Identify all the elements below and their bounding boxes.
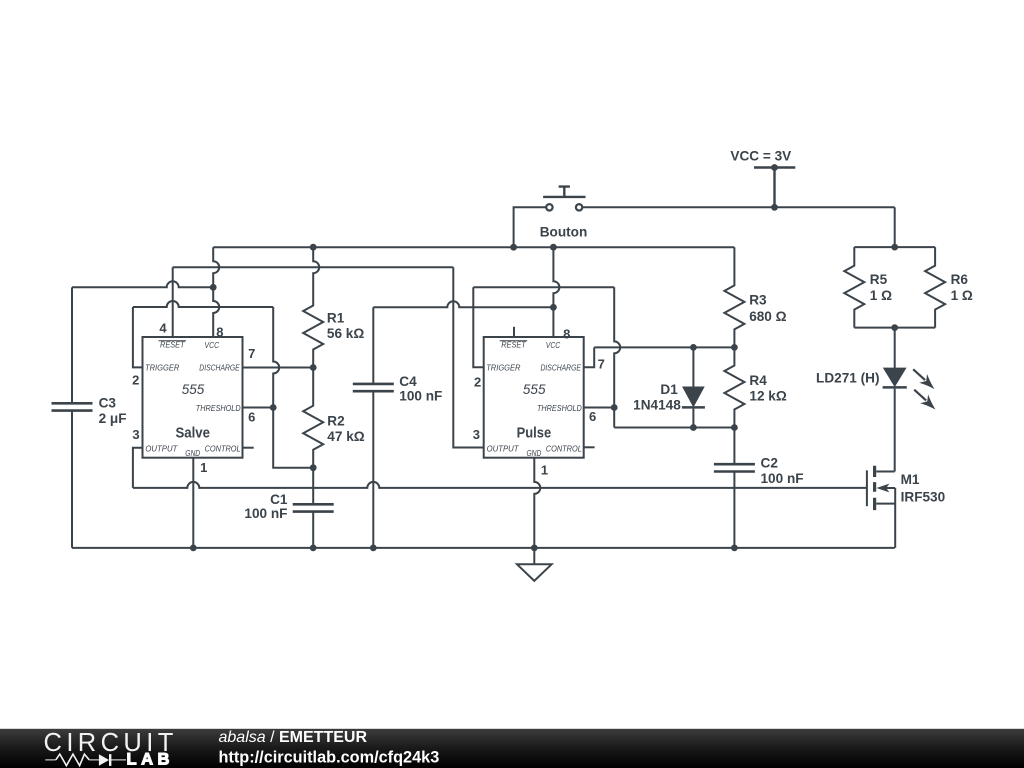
svg-text:D1: D1 <box>660 382 678 397</box>
svg-text:3: 3 <box>132 427 139 442</box>
wire Pulse TRIGGER loop <box>473 287 483 367</box>
wire ground rail bottom <box>72 547 895 549</box>
svg-text:1: 1 <box>200 460 207 475</box>
svg-text:C1: C1 <box>270 492 288 507</box>
svg-text:Bouton: Bouton <box>540 225 588 240</box>
svg-text:LAB: LAB <box>127 751 174 768</box>
capacitor C3 <box>52 403 93 410</box>
wire Salve DISCHARGE to R1/R2 <box>243 367 314 369</box>
diode D1 1N4148 <box>692 347 694 387</box>
power rail VCC wire (top horizontal) <box>583 206 895 208</box>
node junction D1 bottom <box>690 424 697 431</box>
capacitor C2 <box>733 428 735 464</box>
svg-text:12 kΩ: 12 kΩ <box>749 388 786 403</box>
svg-text:R1: R1 <box>327 311 345 326</box>
wire R5/R6 bottom bracket <box>854 327 935 329</box>
svg-text:CONTROL: CONTROL <box>205 443 241 453</box>
svg-text:47 kΩ: 47 kΩ <box>327 429 364 444</box>
svg-text:4: 4 <box>159 320 167 335</box>
wire Pulse VCC riser pin8 <box>553 247 559 337</box>
svg-text:LD271 (H): LD271 (H) <box>816 370 879 385</box>
wire C4 top to Pulse VCC <box>373 301 553 307</box>
svg-text:Salve: Salve <box>175 424 210 441</box>
resistor R2 <box>303 368 323 468</box>
capacitor C1 <box>312 468 314 505</box>
wire C3 lower lead <box>71 411 73 548</box>
VCC supply symbol VCC=3V <box>754 168 795 208</box>
wire C3 top to VCC riser <box>72 281 213 287</box>
wire Salve VCC pin8 riser <box>213 247 219 337</box>
svg-text:THRESHOLD: THRESHOLD <box>537 403 582 413</box>
LED LD271 (H) <box>894 328 896 369</box>
LED light arrow 2 <box>910 385 939 413</box>
node junction C4 on rail <box>370 545 377 552</box>
svg-text:GND: GND <box>185 448 200 458</box>
node junction R5R6 top <box>891 244 898 251</box>
wire upper rail y=247 <box>213 246 734 248</box>
LED light arrow 1 <box>909 365 938 393</box>
svg-text:7: 7 <box>598 357 605 372</box>
wire Pulse OUT to Salve RESET <box>173 266 454 268</box>
svg-text:100 nF: 100 nF <box>761 471 804 486</box>
resistor R1 <box>313 247 319 287</box>
wire (VCC rail corner down to R5/R6) <box>894 207 896 247</box>
svg-text:OUTPUT: OUTPUT <box>145 443 178 453</box>
node junction R5R6 bottom <box>891 324 898 331</box>
wire Pulse CONTROL stub <box>584 446 595 448</box>
IC U1 555 timer Salve box <box>143 337 243 458</box>
svg-text:M1: M1 <box>901 472 920 487</box>
svg-text:DISCHARGE: DISCHARGE <box>199 363 240 373</box>
svg-text:56 kΩ: 56 kΩ <box>327 326 364 341</box>
node junction R2 bottom / C1 top <box>310 464 317 471</box>
svg-text:2 μF: 2 μF <box>99 411 127 426</box>
svg-text:R2: R2 <box>327 413 345 428</box>
IC U2 555 timer Pulse box <box>484 337 584 458</box>
svg-text:R4: R4 <box>749 373 767 388</box>
svg-text:VCC: VCC <box>546 340 561 350</box>
wire Salve OUTPUT to M1 gate <box>133 448 143 488</box>
node junction Salve GND on rail <box>190 545 197 552</box>
capacitor C4 <box>372 307 374 383</box>
wire Salve threshold to C1 node <box>273 408 313 468</box>
node junction ground symbol on rail <box>531 545 538 552</box>
wire Salve RESET riser pin4 <box>172 267 174 337</box>
svg-text:555: 555 <box>182 382 205 397</box>
pushbutton SW Bouton <box>543 187 585 211</box>
node VCC junction on rail <box>771 204 778 211</box>
svg-text:DISCHARGE: DISCHARGE <box>541 363 582 373</box>
wire C3 upper lead <box>71 287 73 403</box>
node junction C3 wire to VCC riser <box>210 284 217 291</box>
wire Pulse DISCHARGE to D1/R3/R4 <box>584 347 595 367</box>
node junction Pulse THRESHOLD <box>611 404 618 411</box>
wire Salve TRIGGER loop <box>133 307 143 367</box>
svg-text:1: 1 <box>541 462 548 477</box>
footer bar <box>0 729 1024 768</box>
node junction R1 bottom / R2 top <box>310 364 317 371</box>
node junction button leg on rail <box>510 244 517 251</box>
transistor M1 IRF530 <box>876 471 895 473</box>
wire Pulse THRESHOLD stub <box>584 407 615 409</box>
resistor R6 <box>925 247 945 328</box>
svg-text:2: 2 <box>132 373 139 388</box>
node junction Salve THRESHOLD <box>270 404 277 411</box>
svg-text:7: 7 <box>248 346 255 361</box>
svg-text:8: 8 <box>216 325 223 340</box>
svg-text:100 nF: 100 nF <box>244 506 287 521</box>
svg-text:680 Ω: 680 Ω <box>749 309 786 324</box>
node junction R1 top <box>310 244 317 251</box>
svg-text:1N4148: 1N4148 <box>633 398 681 413</box>
wire Pulse threshold to D1/R4 bottom <box>613 408 615 428</box>
svg-text:6: 6 <box>248 410 255 425</box>
node junction C1 on rail <box>310 545 317 552</box>
svg-text:1 Ω: 1 Ω <box>951 288 973 303</box>
wire (button left leg) <box>514 207 546 247</box>
svg-text:555: 555 <box>523 382 546 397</box>
resistor R4 <box>724 347 744 427</box>
svg-text:8: 8 <box>563 326 570 341</box>
svg-text:Pulse: Pulse <box>517 424 552 441</box>
svg-text:VCC: VCC <box>205 340 220 350</box>
svg-text:TRIGGER: TRIGGER <box>145 363 179 373</box>
node junction C2 on rail <box>731 545 738 552</box>
svg-text:GND: GND <box>526 448 541 458</box>
wire R5/R6 top bracket <box>854 246 935 248</box>
svg-text:C3: C3 <box>99 396 117 411</box>
svg-text:C2: C2 <box>761 456 779 471</box>
svg-text:1 Ω: 1 Ω <box>870 288 892 303</box>
resistor R3 <box>724 247 744 347</box>
svg-text:CONTROL: CONTROL <box>546 443 582 453</box>
node junction R3 bottom / R4 top <box>731 344 738 351</box>
svg-text:R3: R3 <box>749 293 767 308</box>
wire Pulse RESET stub <box>513 327 515 337</box>
wire Salve right loop down (to THRESHOLD) <box>273 307 279 408</box>
svg-text:http://circuitlab.com/cfq24k3: http://circuitlab.com/cfq24k3 <box>219 748 440 766</box>
svg-text:OUTPUT: OUTPUT <box>487 443 520 453</box>
ground symbol <box>517 548 552 581</box>
wire Pulse right loop down to THRESHOLD <box>614 287 620 407</box>
svg-text:100 nF: 100 nF <box>399 388 442 403</box>
wire Salve CONTROL stub <box>243 447 254 449</box>
svg-text:IRF530: IRF530 <box>901 490 946 505</box>
wire Salve THRESHOLD stub <box>243 407 274 409</box>
CircuitLab logo resistor-diode glyph <box>45 754 126 766</box>
svg-text:abalsa / EMETTEUR: abalsa / EMETTEUR <box>219 729 368 746</box>
wire Salve GND pin1 <box>192 458 194 548</box>
wire Pulse GND pin1 <box>534 458 540 548</box>
svg-text:R5: R5 <box>870 272 888 287</box>
svg-text:THRESHOLD: THRESHOLD <box>196 403 241 413</box>
node junction Pulse VCC on rail <box>550 244 557 251</box>
node junction C4 wire on Pulse VCC riser <box>550 304 557 311</box>
svg-text:6: 6 <box>589 409 596 424</box>
svg-text:VCC = 3V: VCC = 3V <box>730 149 791 164</box>
node junction D1 top <box>690 344 697 351</box>
svg-text:TRIGGER: TRIGGER <box>486 363 520 373</box>
svg-text:C4: C4 <box>399 374 417 389</box>
svg-text:2: 2 <box>474 375 481 390</box>
node junction R4 bottom / C2 top <box>731 424 738 431</box>
resistor R5 <box>844 247 864 328</box>
svg-text:R6: R6 <box>951 272 969 287</box>
svg-text:3: 3 <box>473 427 480 442</box>
